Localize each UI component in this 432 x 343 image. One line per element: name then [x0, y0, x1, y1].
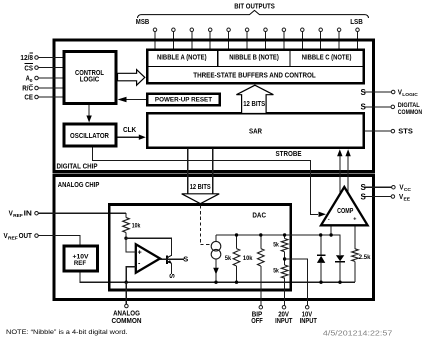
brace over bit outputs: [138, 10, 369, 18]
svg-text:NIBBLE A (NOTE): NIBBLE A (NOTE): [157, 55, 207, 62]
op-amp A1: [136, 244, 160, 272]
pin DIGITAL COMMON: [361, 102, 423, 116]
oscillator block: [64, 124, 116, 146]
svg-text:DIGITAL CHIP: DIGITAL CHIP: [57, 163, 98, 170]
svg-text:REF: REF: [13, 213, 23, 219]
svg-text:COMMON: COMMON: [398, 109, 423, 116]
node 5k/5k midpoint: [283, 257, 286, 260]
svg-text:5k: 5k: [273, 242, 279, 249]
DAC top rail: [216, 235, 340, 255]
wire midpoint to 10V input: [285, 259, 308, 305]
analog common rail: [126, 281, 355, 283]
comparator U2: [321, 187, 368, 225]
svg-text:DIGITAL: DIGITAL: [398, 102, 420, 109]
+10V REF block: [64, 246, 97, 271]
comparator wire - input: [330, 225, 332, 235]
control logic block U1: [64, 52, 116, 104]
svg-text:5k: 5k: [273, 267, 279, 274]
svg-text:+: +: [353, 217, 356, 223]
pin DB9: [191, 32, 193, 50]
svg-text:12 BITS: 12 BITS: [243, 101, 265, 108]
wire op-amp - input to common rail: [126, 267, 136, 283]
resistor 5k lower: [273, 265, 288, 305]
pin DB7: [228, 32, 230, 50]
pin BIP OFF: [251, 305, 263, 324]
svg-text:INPUT: INPUT: [275, 318, 293, 325]
svg-text:STROBE: STROBE: [276, 151, 302, 158]
svg-text:EE: EE: [404, 197, 411, 203]
svg-text:LSB: LSB: [350, 19, 363, 26]
svg-text:CC: CC: [404, 187, 412, 193]
diode D1 (up): [317, 235, 325, 282]
svg-text:CLK: CLK: [123, 127, 136, 134]
svg-text:ANALOG: ANALOG: [113, 311, 140, 318]
input pin 12/8: [20, 53, 64, 62]
pin VREF IN: [9, 211, 126, 220]
svg-text:MSB: MSB: [136, 19, 149, 26]
divider nibble B/C: [289, 51, 291, 66]
bus arrow SAR to DAC 12 BITS (shafts): [187, 149, 189, 194]
divider nibble A/B: [217, 51, 219, 66]
pin 20V INPUT: [275, 305, 293, 324]
strobe wire oscillator to comparator: [92, 147, 318, 214]
svg-text:12/8: 12/8: [20, 55, 33, 62]
bus arrowhead into DAC (hollow): [182, 194, 220, 204]
pin DB2: [320, 32, 322, 50]
pin DB4: [283, 32, 285, 50]
svg-text:NOTE: “Nibble” is a 4-bit digi: NOTE: “Nibble” is a 4-bit digital word.: [6, 329, 128, 336]
svg-text:CE: CE: [24, 94, 33, 101]
svg-text:OSCILLATOR: OSCILLATOR: [70, 133, 109, 140]
svg-text:S: S: [183, 254, 188, 263]
pin VLOGIC: [361, 88, 419, 98]
node current source to rail: [214, 281, 217, 284]
bus arrow control logic to buffers (hollow): [118, 70, 145, 86]
digital chip outline: [54, 40, 374, 172]
svg-text:S: S: [167, 274, 176, 279]
svg-text:LOGIC: LOGIC: [80, 77, 100, 84]
svg-text:DAC: DAC: [252, 212, 266, 219]
svg-text:2.5k: 2.5k: [359, 254, 371, 261]
svg-text:COMP: COMP: [337, 208, 353, 215]
input pin CE: [24, 94, 64, 101]
svg-text:+: +: [138, 249, 142, 256]
svg-text:BIT OUTPUTS: BIT OUTPUTS: [234, 4, 275, 11]
resistor 10k (BIP OFF): [243, 235, 264, 305]
power-up reset block: [147, 94, 219, 105]
input pin A0: [26, 76, 64, 84]
node ref/feedback junction: [124, 237, 127, 240]
svg-text:THREE-STATE BUFFERS AND CONTRO: THREE-STATE BUFFERS AND CONTROL: [193, 73, 316, 80]
svg-text:COMMON: COMMON: [112, 318, 142, 325]
svg-text:NIBBLE B (NOTE): NIBBLE B (NOTE): [229, 55, 279, 62]
input pin R/C: [22, 84, 64, 92]
pin VREF OUT: [4, 233, 81, 244]
svg-text:4/5/201214:22:57: 4/5/201214:22:57: [323, 328, 392, 337]
svg-text:SAR: SAR: [249, 129, 262, 136]
pin ANALOG COMMON: [112, 282, 142, 325]
wire junction to op-amp + input: [126, 238, 136, 252]
bus arrow SAR to buffers 12 BITS (hollow up arrow): [236, 85, 273, 113]
svg-text:REF: REF: [74, 260, 86, 267]
svg-text:-: -: [328, 216, 330, 222]
DAC block outline: [109, 205, 291, 291]
svg-text:S: S: [361, 183, 367, 192]
pin DB5: [265, 32, 267, 50]
svg-text:REF: REF: [8, 236, 18, 242]
svg-text:OFF: OFF: [251, 318, 263, 325]
bit output pins: 12 terminals with stubs: [153, 28, 359, 50]
node - input to rail: [125, 281, 128, 284]
pin DB11 (MSB): [154, 32, 156, 50]
pin DB8: [209, 32, 211, 50]
SAR block: [147, 113, 363, 147]
svg-text:10k: 10k: [243, 255, 253, 262]
resistor 5k upper (20V input divider): [273, 235, 288, 265]
input pin CS: [24, 63, 64, 72]
buffers block: nibble A/B/C and three-state buffers: [147, 50, 363, 84]
resistor 5k (DAC): [225, 235, 240, 282]
svg-text:12 BITS: 12 BITS: [190, 184, 211, 191]
transistor Q1: [160, 254, 188, 278]
divider nibble row: [146, 65, 364, 67]
wire oscillator to SAR (CLK): [118, 136, 141, 138]
analog chip outline: [54, 175, 374, 299]
svg-text:0: 0: [30, 78, 33, 84]
svg-text:ANALOG CHIP: ANALOG CHIP: [58, 182, 100, 189]
pin DB3: [301, 32, 303, 50]
svg-text:LOGIC: LOGIC: [402, 92, 418, 98]
pin 10V INPUT: [300, 305, 318, 324]
pin DB10: [172, 32, 174, 50]
current source I1: [211, 235, 221, 282]
wire control logic to oscillator: [88, 105, 90, 117]
pin VEE: [361, 192, 411, 202]
wire REF to common rail: [80, 273, 126, 283]
pin DB1: [338, 32, 340, 50]
resistor 2.5k: [352, 225, 371, 282]
svg-text:S: S: [361, 192, 367, 201]
wire comparator output to SAR (left): [339, 152, 341, 196]
wire junction to transistor collector: [126, 238, 172, 255]
svg-text:POWER-UP RESET: POWER-UP RESET: [155, 96, 212, 103]
svg-text:OUT: OUT: [19, 233, 33, 240]
svg-text:S: S: [361, 103, 367, 112]
pin DB0 (LSB): [357, 32, 359, 50]
svg-text:CS: CS: [24, 65, 33, 72]
wire comparator output to SAR (right): [347, 152, 349, 195]
svg-text:STS: STS: [398, 129, 413, 136]
svg-text:10k: 10k: [132, 222, 141, 229]
svg-text:IN: IN: [24, 211, 32, 218]
pin VCC: [361, 183, 412, 193]
svg-text:5k: 5k: [225, 255, 232, 262]
svg-text:S: S: [361, 88, 367, 97]
pin DB6: [246, 32, 248, 50]
pin STS: [364, 129, 413, 136]
diode D2 (down): [335, 235, 345, 282]
svg-text:R/C: R/C: [22, 85, 33, 92]
svg-text:NIBBLE C (NOTE): NIBBLE C (NOTE): [302, 55, 352, 62]
svg-text:INPUT: INPUT: [300, 318, 318, 325]
dashed bus into current source: [200, 206, 211, 245]
wire power-up reset to control logic: [125, 99, 146, 101]
resistor 10k (reference input): [123, 213, 141, 238]
